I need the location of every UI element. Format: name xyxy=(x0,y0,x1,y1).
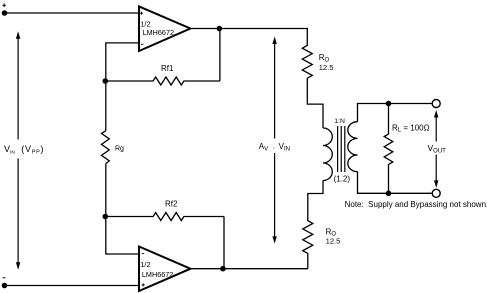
op-amp U2 xyxy=(139,247,191,292)
wire Rf2 to U2 output xyxy=(223,217,225,269)
op-amp U1 xyxy=(139,6,190,51)
node Rf2 junction xyxy=(103,214,109,220)
resistor Rf1 xyxy=(105,77,220,85)
wire U2 output xyxy=(191,268,308,270)
resistor RL with leads xyxy=(384,104,393,194)
svg-text:1/2: 1/2 xyxy=(140,260,150,269)
svg-text:Rf2: Rf2 xyxy=(165,199,178,208)
wire node to Rg xyxy=(105,81,107,131)
wire node to Rf1 xyxy=(219,29,221,82)
resistor Rf2 xyxy=(105,213,224,221)
transformer T1 primary winding xyxy=(323,128,332,181)
svg-text:LMH6672: LMH6672 xyxy=(143,28,174,37)
svg-text:RO: RO xyxy=(319,53,330,63)
node U1 output xyxy=(217,26,223,32)
terminal VOUT plus xyxy=(432,100,440,108)
VIN arrow xyxy=(16,31,20,269)
svg-text:12.5: 12.5 xyxy=(326,236,341,245)
transformer T1 secondary winding xyxy=(348,122,358,172)
svg-text:.: . xyxy=(273,142,275,151)
input node bottom-left xyxy=(2,283,8,289)
resistor Rg xyxy=(102,131,110,164)
svg-text:VIN: VIN xyxy=(4,144,15,156)
svg-text:(1.2): (1.2) xyxy=(334,174,351,183)
resistor RO bottom with leads xyxy=(303,181,323,269)
svg-text:VIN: VIN xyxy=(279,142,290,152)
VOUT arrow xyxy=(434,110,438,188)
svg-text:Rf1: Rf1 xyxy=(161,64,174,73)
svg-text:LMH6672: LMH6672 xyxy=(142,270,173,279)
node - terminal negative xyxy=(3,277,6,279)
wire secondary top lead xyxy=(358,104,433,122)
input node top-left xyxy=(2,10,8,16)
node + terminal positive xyxy=(2,4,6,8)
wire U1 output xyxy=(190,28,308,30)
wire Rg to node xyxy=(105,164,107,217)
wire node to U2 inverting input xyxy=(106,217,139,255)
svg-text:Rg: Rg xyxy=(115,146,124,153)
svg-text:1:N: 1:N xyxy=(334,118,345,125)
wire xyxy=(5,12,139,14)
wire secondary bottom lead xyxy=(358,172,433,194)
AV VIN arrow xyxy=(272,37,276,244)
svg-text:RL = 100Ω: RL = 100Ω xyxy=(392,123,430,133)
svg-text:AV: AV xyxy=(259,142,268,152)
terminal VOUT minus xyxy=(432,189,440,197)
transformer T1 core xyxy=(338,126,345,172)
svg-text:VOUT: VOUT xyxy=(428,143,447,154)
wire xyxy=(5,285,140,287)
node RL bottom xyxy=(386,191,392,197)
resistor RO top with leads xyxy=(302,29,323,129)
node U2 output xyxy=(220,266,226,272)
wire U1 inverting input xyxy=(106,43,139,81)
node RL top xyxy=(386,101,392,107)
svg-text:12.5: 12.5 xyxy=(319,63,334,72)
svg-text:(VPP): (VPP) xyxy=(21,144,44,156)
node inverting input junction xyxy=(103,78,109,84)
svg-text:Note: Supply and Bypassing no: Note: Supply and Bypassing not shown. xyxy=(345,200,487,209)
